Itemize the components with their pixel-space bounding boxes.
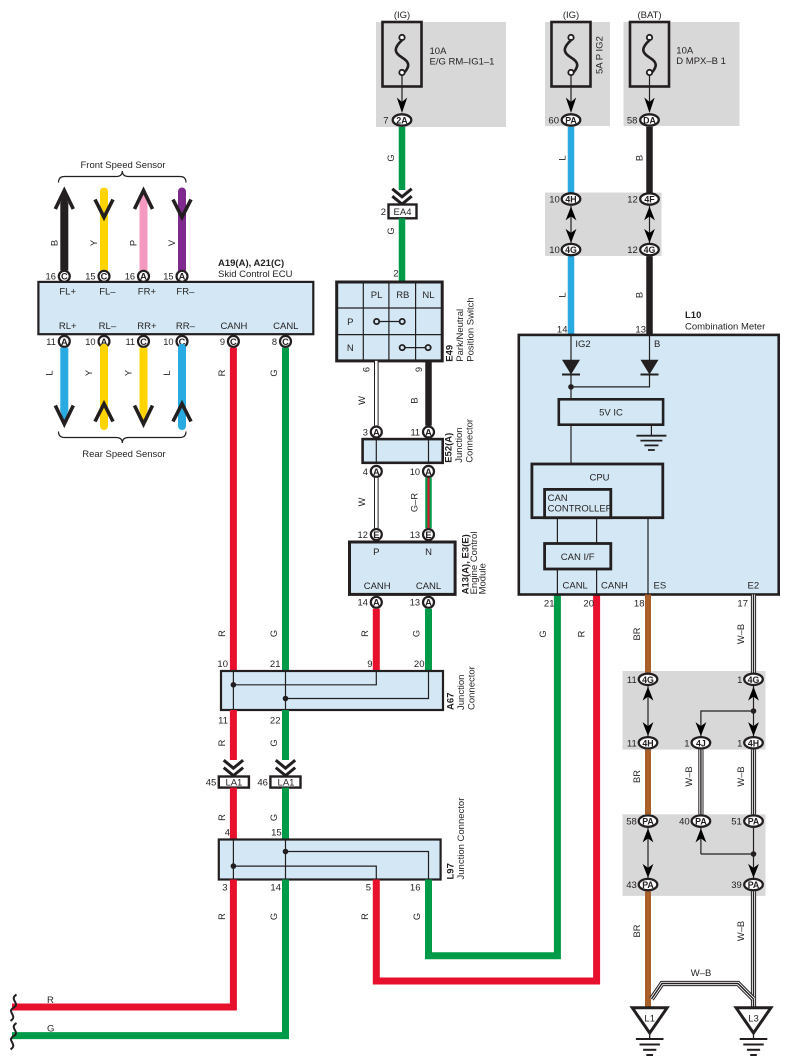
svg-text:LA1: LA1: [225, 778, 242, 789]
svg-text:G: G: [269, 630, 279, 637]
wire L rear RL+ sensor: [45, 348, 74, 425]
svg-text:16: 16: [46, 272, 56, 282]
svg-text:C: C: [140, 337, 147, 347]
svg-text:10: 10: [217, 659, 228, 670]
shading behind connectors 4H/4G and 4F/4G: [545, 193, 662, 257]
svg-text:W: W: [357, 497, 367, 506]
svg-text:NL: NL: [422, 290, 434, 301]
svg-text:14: 14: [270, 883, 281, 894]
junction connector E52(A): [363, 439, 443, 463]
wire R LA1 to L97 pin 4: [217, 788, 233, 840]
svg-text:2A: 2A: [396, 116, 408, 126]
svg-text:8: 8: [272, 337, 277, 347]
svg-text:39: 39: [731, 880, 742, 891]
svg-text:G: G: [269, 814, 279, 821]
wire Y rear RR+ sensor: [124, 348, 153, 425]
wire V front FR- sensor: [167, 192, 191, 271]
svg-text:A: A: [373, 598, 380, 608]
svg-text:R: R: [217, 913, 227, 920]
svg-text:CONTROLLER: CONTROLLER: [548, 504, 613, 515]
svg-text:2: 2: [393, 269, 398, 280]
svg-text:R: R: [217, 739, 227, 746]
diode IG2: [562, 360, 580, 375]
svg-text:G: G: [412, 630, 422, 637]
wire B E49 pin 9 to E52 pin 11: [409, 361, 428, 426]
svg-text:C: C: [230, 337, 237, 347]
svg-text:W–B: W–B: [736, 624, 746, 644]
connector 1 4G with branch to 1 4J and 1 4H: [684, 674, 762, 750]
ECU pin 16 A: [125, 271, 149, 282]
svg-text:N: N: [425, 547, 432, 558]
svg-text:G–R: G–R: [409, 493, 419, 512]
svg-text:Combination Meter: Combination Meter: [685, 322, 765, 333]
connector pair 58 PA / 43 PA: [626, 815, 657, 891]
wire BR 11 4H to 58 PA: [632, 750, 648, 815]
svg-text:B: B: [409, 397, 419, 403]
svg-text:B: B: [634, 155, 644, 161]
svg-text:A: A: [61, 337, 68, 347]
wire R CANH down from ECU: [217, 348, 233, 671]
E52 pin 10 A: [410, 466, 434, 477]
svg-text:C: C: [61, 272, 68, 282]
svg-text:Junction Connector: Junction Connector: [456, 798, 467, 880]
svg-text:R: R: [217, 630, 227, 637]
svg-text:R: R: [217, 814, 227, 821]
svg-text:IG2: IG2: [575, 339, 590, 350]
svg-text:CANH: CANH: [601, 581, 628, 592]
wire W-B link between grounds: [652, 968, 754, 999]
svg-text:4H: 4H: [748, 738, 759, 748]
ECU pin 11 A bottom: [46, 336, 70, 347]
fuse 5A P IG2: [552, 10, 606, 113]
svg-text:1: 1: [684, 738, 689, 749]
connector 45 LA1: [206, 760, 249, 789]
svg-text:PA: PA: [642, 880, 654, 890]
svg-text:E52(A): E52(A): [444, 433, 455, 463]
ECU terminal labels: [59, 287, 299, 333]
svg-text:RR–: RR–: [176, 321, 196, 332]
wires CAN controller to CAN I/F: [557, 518, 596, 544]
connector pair 12 4F / 12 4G: [627, 193, 659, 256]
svg-text:6: 6: [362, 367, 372, 372]
svg-text:Park/Neutral: Park/Neutral: [455, 309, 466, 362]
svg-text:4G: 4G: [642, 675, 654, 685]
ECM pin 14 A: [358, 597, 382, 608]
svg-text:58: 58: [626, 817, 637, 828]
svg-text:PA: PA: [748, 817, 760, 827]
svg-text:R: R: [577, 630, 587, 637]
svg-text:G: G: [269, 739, 279, 746]
label E52(A) junction connector: [444, 419, 476, 463]
svg-text:4G: 4G: [644, 245, 656, 255]
meter internal wire IG2: [571, 335, 591, 360]
svg-text:R: R: [360, 913, 370, 920]
svg-text:51: 51: [731, 817, 742, 828]
svg-text:Connector: Connector: [467, 666, 478, 710]
wire W E52 pin 4 to ECM pin 12: [357, 478, 377, 528]
wire G ECM CANL to A67 pin 20: [412, 609, 429, 671]
svg-text:L1: L1: [644, 1014, 655, 1025]
svg-text:E: E: [425, 530, 431, 540]
svg-text:FR–: FR–: [176, 287, 195, 298]
ECU pin 9 C CANH: [220, 336, 239, 347]
svg-text:5A P IG2: 5A P IG2: [595, 36, 606, 74]
svg-text:G: G: [412, 913, 422, 920]
connector 7 2A: [383, 114, 411, 126]
svg-text:L: L: [45, 370, 55, 375]
svg-text:A: A: [425, 598, 432, 608]
junction connector L97: [219, 840, 441, 880]
break symbol green wire: [11, 1023, 17, 1049]
svg-text:Y: Y: [89, 240, 99, 246]
connector 60 PA: [548, 114, 580, 126]
svg-text:A67: A67: [446, 693, 457, 710]
svg-text:BR: BR: [632, 924, 642, 937]
svg-text:PL: PL: [371, 290, 383, 301]
svg-text:4H: 4H: [642, 738, 653, 748]
wire G-R E52 pin 10 to ECM pin 13: [409, 478, 428, 528]
svg-text:Y: Y: [84, 370, 94, 376]
svg-text:(IG): (IG): [563, 10, 579, 21]
wire B fuse DA to 4F: [634, 127, 649, 193]
svg-text:4H: 4H: [565, 195, 576, 205]
svg-text:Front Speed Sensor: Front Speed Sensor: [80, 160, 165, 171]
svg-text:21: 21: [544, 599, 555, 610]
svg-text:17: 17: [737, 599, 748, 610]
shading behind fuse E/G RM-IG1-1: [376, 22, 506, 127]
svg-text:2: 2: [381, 207, 386, 218]
connectors 40 PA / 51 PA merging to 39 PA: [679, 815, 763, 891]
svg-text:V: V: [167, 239, 177, 246]
svg-text:RR+: RR+: [137, 321, 157, 332]
svg-text:16: 16: [125, 272, 135, 282]
svg-text:11: 11: [46, 337, 56, 347]
svg-text:5: 5: [366, 883, 371, 894]
CPU box: [532, 464, 663, 518]
E49 contact N row: [400, 345, 431, 350]
svg-text:11: 11: [627, 738, 637, 749]
svg-text:(IG): (IG): [394, 10, 410, 21]
svg-text:PA: PA: [642, 817, 654, 827]
wire B 4G to combination meter pin 13: [634, 256, 649, 335]
wire L fuse PA to 4H: [557, 127, 571, 193]
svg-text:43: 43: [626, 880, 637, 891]
wire W-B 1 4H to 51 PA: [736, 750, 754, 815]
E52 pin 4 A: [363, 466, 382, 477]
svg-text:7: 7: [383, 116, 388, 127]
svg-text:(BAT): (BAT): [637, 10, 661, 21]
svg-text:L: L: [162, 370, 172, 375]
svg-text:15: 15: [271, 828, 282, 839]
svg-text:G: G: [269, 913, 279, 920]
ground L1: [632, 1008, 667, 1055]
svg-text:15: 15: [85, 272, 95, 282]
svg-text:BR: BR: [632, 627, 642, 640]
svg-text:A: A: [140, 272, 147, 282]
skid control ECU box: [38, 282, 313, 334]
fuse 10A D MPX-B 1: [630, 10, 726, 113]
wire 5V IC to CPU: [570, 425, 572, 464]
svg-text:G: G: [269, 369, 279, 376]
svg-text:E49: E49: [444, 345, 455, 362]
svg-text:14: 14: [358, 598, 368, 608]
label A67 junction connector: [446, 666, 478, 710]
svg-text:C: C: [282, 337, 289, 347]
internal ground of 5V IC: [636, 425, 666, 450]
svg-text:G: G: [386, 154, 396, 161]
svg-text:10: 10: [163, 337, 173, 347]
svg-text:D MPX–B 1: D MPX–B 1: [676, 56, 726, 67]
ground L3: [736, 1008, 771, 1055]
svg-text:P: P: [129, 240, 139, 246]
svg-text:W–B: W–B: [684, 766, 694, 786]
svg-text:FL–: FL–: [99, 287, 116, 298]
svg-text:B: B: [654, 339, 660, 350]
label L97 junction connector: [446, 798, 468, 880]
svg-text:4G: 4G: [565, 245, 577, 255]
wire R ECM CANH to A67 pin 9: [360, 609, 376, 671]
svg-text:LA1: LA1: [278, 778, 295, 789]
svg-text:C: C: [101, 272, 108, 282]
svg-text:18: 18: [634, 599, 645, 610]
wire P front FR+ sensor: [129, 190, 153, 271]
wire G L97 pin 14 off-page: [12, 880, 286, 1036]
engine control module A13(A) E3(E): [350, 542, 456, 594]
ECU pin 11 C bottom: [125, 336, 149, 347]
ECM pin 13 A: [410, 597, 434, 608]
svg-text:E2: E2: [748, 581, 760, 592]
wire G EA4 to E49 pin 2: [386, 218, 402, 281]
connector pair 11 4G / 11 4H: [627, 674, 657, 750]
svg-text:10: 10: [549, 195, 560, 206]
svg-text:Y: Y: [124, 370, 134, 376]
svg-text:B: B: [634, 292, 644, 298]
svg-text:20: 20: [414, 659, 425, 670]
svg-text:FL+: FL+: [59, 287, 76, 298]
svg-text:Junction: Junction: [456, 675, 467, 710]
ECU pin 15 C: [85, 271, 109, 282]
ECU pin 8 C CANL: [272, 336, 291, 347]
svg-text:12: 12: [627, 195, 638, 206]
svg-text:10: 10: [410, 467, 420, 477]
svg-text:9: 9: [414, 367, 424, 372]
svg-text:R: R: [360, 630, 370, 637]
meter internal wire B: [650, 335, 661, 360]
CAN I/F box: [545, 544, 611, 570]
wire R L97 pin 5 to meter CANH: [360, 595, 597, 982]
svg-text:Skid Control ECU: Skid Control ECU: [218, 269, 293, 280]
svg-text:CPU: CPU: [589, 473, 609, 484]
svg-text:B: B: [49, 240, 59, 246]
E49 contact P row: [374, 319, 405, 324]
svg-text:CANL: CANL: [273, 321, 298, 332]
svg-text:L97: L97: [446, 863, 457, 879]
svg-text:A: A: [373, 467, 380, 477]
svg-text:L: L: [557, 292, 567, 297]
svg-text:21: 21: [270, 659, 281, 670]
label A13(A), E3(E) engine control module: [460, 532, 488, 595]
svg-text:RL–: RL–: [99, 321, 117, 332]
svg-text:G: G: [386, 227, 396, 234]
svg-text:A: A: [425, 427, 432, 437]
svg-text:G: G: [538, 630, 548, 637]
svg-text:1: 1: [737, 675, 742, 686]
svg-text:Connector: Connector: [465, 419, 476, 463]
svg-text:P: P: [373, 547, 379, 558]
svg-text:PA: PA: [565, 116, 577, 126]
svg-text:4J: 4J: [696, 738, 706, 748]
diode B: [641, 360, 659, 375]
wire W-B 39 PA to ground L3: [736, 891, 754, 1009]
svg-text:Position Switch: Position Switch: [465, 297, 476, 361]
svg-text:45: 45: [206, 778, 217, 789]
meter internal CANL lead: [557, 569, 587, 595]
svg-text:58: 58: [627, 116, 638, 127]
svg-text:46: 46: [257, 778, 268, 789]
svg-text:RB: RB: [396, 290, 409, 301]
ECM pin 12 E: [358, 529, 382, 540]
wire G fuse to EA4: [386, 127, 402, 190]
meter internal ES lead: [648, 518, 666, 595]
svg-text:4: 4: [225, 828, 230, 839]
svg-text:Rear Speed Sensor: Rear Speed Sensor: [82, 449, 165, 460]
connector pair 10 4H / 10 4G: [549, 193, 580, 256]
svg-text:W–B: W–B: [736, 921, 746, 941]
svg-text:N: N: [347, 343, 354, 354]
connector 2 EA4: [381, 189, 417, 219]
wire G LA1 to L97 pin 15: [269, 788, 286, 840]
wire Y rear RL- sensor: [84, 348, 113, 426]
svg-text:40: 40: [679, 817, 690, 828]
svg-text:4F: 4F: [644, 195, 655, 205]
ECU pin 10 C bottom: [163, 336, 187, 347]
svg-text:15: 15: [163, 272, 173, 282]
svg-text:A19(A), A21(C): A19(A), A21(C): [218, 258, 284, 269]
svg-text:CANL: CANL: [416, 581, 441, 592]
svg-text:BR: BR: [632, 770, 642, 783]
svg-text:L3: L3: [748, 1014, 759, 1025]
svg-text:L: L: [557, 155, 567, 160]
svg-text:4G: 4G: [748, 675, 760, 685]
brace rear speed sensor: [59, 432, 187, 444]
svg-text:13: 13: [410, 598, 420, 608]
svg-text:CANH: CANH: [220, 321, 247, 332]
svg-text:EA4: EA4: [394, 207, 412, 218]
wire G L97 pin 16 to meter CANL: [410, 595, 557, 956]
svg-text:10: 10: [549, 245, 560, 256]
svg-text:ES: ES: [654, 581, 667, 592]
svg-text:5V IC: 5V IC: [599, 407, 623, 418]
ECU pin 15 A: [163, 271, 187, 282]
svg-text:CAN: CAN: [548, 493, 568, 504]
svg-text:13: 13: [410, 530, 420, 540]
wire BR meter ES pin 18 to 11 4G: [632, 595, 648, 673]
svg-text:R: R: [47, 995, 54, 1006]
svg-text:4: 4: [363, 467, 368, 477]
ECU pin 16 C: [46, 271, 70, 282]
CAN CONTROLLER box: [545, 489, 613, 517]
E52 pin 3 A: [363, 427, 382, 438]
connector 46 LA1: [257, 760, 300, 789]
wire R L97 pin 3 off-page: [12, 880, 233, 1008]
svg-text:Junction: Junction: [454, 427, 465, 462]
svg-text:60: 60: [548, 116, 559, 127]
junction connector A67: [221, 671, 443, 710]
svg-text:9: 9: [220, 337, 225, 347]
svg-text:W–B: W–B: [736, 766, 746, 786]
svg-text:PA: PA: [695, 817, 707, 827]
meter internal CANH lead: [597, 569, 628, 595]
svg-text:10: 10: [85, 337, 95, 347]
svg-text:3: 3: [363, 427, 368, 437]
wire W-B meter E2 pin 17 to 1 4G: [736, 595, 754, 673]
wire L 4G to combination meter pin 14: [557, 256, 571, 335]
fuse 10A E/G RM-IG1-1: [383, 10, 495, 113]
svg-text:CANL: CANL: [563, 581, 588, 592]
shading behind connectors 4G/4H/4J lower: [623, 671, 766, 750]
wire W E49 pin 6 to E52 pin 3: [357, 361, 377, 426]
svg-text:A: A: [373, 427, 380, 437]
shading behind fuse D MPX-B 1: [624, 22, 740, 126]
ECU pin 10 A bottom: [85, 336, 109, 347]
svg-text:20: 20: [583, 599, 594, 610]
svg-text:A: A: [179, 272, 186, 282]
svg-text:11: 11: [218, 716, 228, 727]
connector 58 DA: [627, 114, 659, 126]
svg-text:W–B: W–B: [691, 968, 712, 979]
ECM pin 13 E: [410, 529, 434, 540]
svg-text:R: R: [217, 369, 227, 376]
break symbol red wire: [11, 995, 17, 1021]
brace front speed sensor: [59, 171, 187, 183]
wire Y front FL- sensor: [89, 192, 113, 271]
svg-text:CAN I/F: CAN I/F: [561, 552, 595, 563]
svg-text:3: 3: [222, 883, 227, 894]
svg-text:PA: PA: [748, 880, 760, 890]
svg-text:A: A: [425, 467, 432, 477]
svg-text:RL+: RL+: [59, 321, 77, 332]
svg-text:W: W: [357, 396, 367, 405]
svg-text:12: 12: [358, 530, 368, 540]
combination meter L10 box: [519, 310, 779, 595]
svg-text:E: E: [373, 530, 379, 540]
svg-text:DA: DA: [643, 116, 656, 126]
shading behind fuse P IG2: [545, 22, 610, 126]
svg-text:11: 11: [410, 427, 420, 437]
wire R A67 pin 11 to LA1: [217, 710, 233, 760]
svg-text:Module: Module: [478, 563, 489, 594]
wire diode junction to 5V IC: [568, 375, 649, 400]
svg-text:9: 9: [367, 659, 372, 670]
wire B front FL+ sensor: [49, 190, 73, 271]
wire G A67 pin 22 to LA1: [269, 710, 286, 760]
label E49 park/neutral position switch: [444, 297, 476, 361]
park/neutral position switch E49: [337, 282, 443, 361]
svg-text:P: P: [347, 317, 353, 328]
E52 pin 11 A: [410, 427, 434, 438]
svg-text:CANH: CANH: [364, 581, 391, 592]
svg-text:FR+: FR+: [138, 287, 157, 298]
svg-text:11: 11: [125, 337, 135, 347]
svg-text:L10: L10: [685, 310, 701, 321]
svg-text:1: 1: [737, 738, 742, 749]
wire G CANL down from ECU: [269, 348, 286, 671]
svg-text:12: 12: [627, 245, 638, 256]
wire BR 43 PA to ground L1: [632, 891, 648, 1009]
wire W-B 1 4J to 40 PA: [684, 750, 701, 815]
svg-text:11: 11: [627, 675, 637, 686]
wire L rear RR- sensor: [162, 348, 191, 426]
